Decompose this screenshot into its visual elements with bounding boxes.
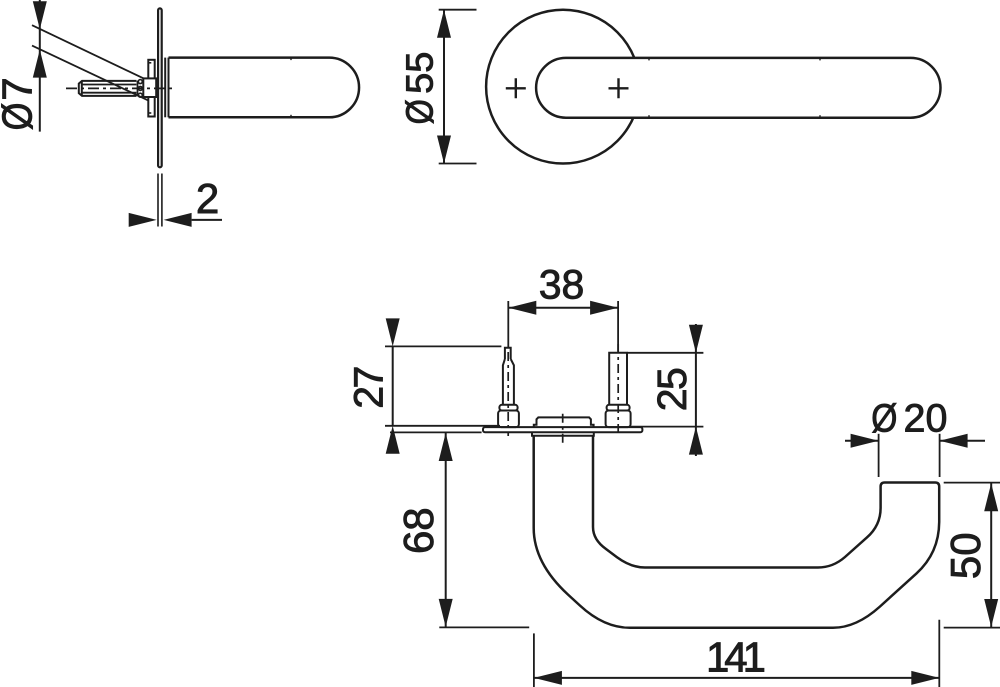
dimension 38 arrow left [508, 301, 536, 315]
dimension 25 arrow top [689, 325, 703, 353]
svg-text:Ø: Ø [0, 103, 41, 131]
grip junction ticks [290, 58, 292, 61]
lever junction ticks [648, 58, 650, 61]
svg-text:55: 55 [400, 52, 442, 94]
svg-text:50: 50 [942, 532, 989, 579]
dimension Ø20 line left [845, 440, 879, 442]
dimension 25 line [695, 324, 697, 456]
dimension 2 extension lines [157, 174, 159, 227]
svg-text:27: 27 [346, 368, 392, 409]
spindle (square, side view) [79, 81, 137, 96]
dimension Ø55 arrow bottom [437, 136, 451, 164]
grip (side view, stadium) [169, 58, 360, 118]
screw left nut [498, 411, 519, 428]
neck centerline [562, 414, 564, 444]
screw left ring [499, 405, 517, 411]
dimension 38 arrow right [590, 301, 618, 315]
dimension 68 line [445, 432, 447, 627]
dimension 50 arrow bottom [984, 599, 998, 627]
neck bell cap (side view) [164, 58, 166, 118]
dimension Ø20 arrow right [940, 434, 968, 448]
dimension Ø20 extension right [939, 434, 941, 477]
dimension 50 extension top [944, 482, 1000, 484]
dimension 25 extension top [628, 352, 704, 354]
stud right body [609, 353, 627, 405]
dimension Ø20 extension left [878, 434, 880, 477]
screw left (pointed tip) [503, 348, 514, 405]
dimension 141 extension left [533, 633, 535, 687]
dimension Ø7 arrow top [33, 1, 47, 29]
dimension 25 extension bottom [631, 426, 704, 428]
dimension 25 arrow bottom [689, 427, 703, 455]
dimension Ø20 arrow left [851, 434, 879, 448]
dimension 68 extension bottom [439, 626, 529, 628]
dimension 68 arrow bottom [439, 599, 453, 627]
stud right ring [607, 405, 630, 411]
dimension Ø7 extension line lower [32, 46, 148, 101]
dimension 38 extension right [617, 301, 619, 352]
svg-text:7: 7 [0, 77, 41, 100]
dimension Ø55 line [443, 10, 445, 164]
dimension Ø20 line right [940, 440, 985, 442]
dimension 27 arrow top [386, 318, 400, 346]
center mark right [609, 78, 629, 98]
svg-text:Ø: Ø [871, 397, 897, 441]
rosette plate (2mm, edge view) [158, 8, 162, 167]
dimension 68 arrow top [439, 433, 453, 461]
flange step top [148, 62, 151, 64]
dimension 27 line [392, 346, 394, 425]
svg-text:68: 68 [395, 507, 442, 554]
dimension 38 extension left [507, 301, 509, 347]
dimension Ø55 extension bottom [439, 163, 477, 165]
dimension 50 extension bottom [944, 627, 1000, 629]
spindle nut block [143, 78, 156, 97]
svg-text:141: 141 [706, 634, 765, 681]
grip U-tube [534, 436, 940, 628]
spindle spring detail [137, 81, 139, 97]
backplate (edge view) [483, 427, 642, 432]
rosette flange (support bush) [148, 60, 154, 117]
rosette circle Ø55 [486, 10, 640, 164]
dimension 2 arrow right [164, 213, 192, 227]
stud right nut [606, 411, 631, 428]
spindle centerline [66, 87, 172, 89]
dimension Ø55 extension top [439, 9, 477, 11]
svg-text:25: 25 [649, 368, 695, 411]
dimension 141 arrow right [911, 671, 939, 685]
dimension 2 tail [192, 219, 222, 221]
svg-text:Ø: Ø [400, 99, 442, 124]
dimension 27 extension top [385, 345, 501, 347]
svg-text:20: 20 [904, 397, 948, 441]
dimension 2 arrow left [129, 213, 157, 227]
neck bell shoulder [532, 432, 594, 435]
dimension 27 extension bottom [385, 425, 500, 427]
dimension 50 arrow top [984, 483, 998, 511]
lever (front view, white filled) [536, 58, 940, 118]
center mark left [506, 78, 526, 98]
dimension Ø7 arrow bottom [33, 50, 47, 78]
screw left centerline [507, 352, 509, 436]
dimension Ø7 line [39, 0, 41, 132]
dimension 68 extension top [390, 431, 482, 433]
dimension 50 line [990, 483, 992, 628]
dimension 38 line [508, 307, 618, 309]
dimension Ø55 arrow top [437, 10, 451, 38]
stud right centerline [617, 344, 619, 436]
dimension 27 arrow bottom [386, 426, 400, 454]
dimension 141 line [534, 677, 939, 679]
dimension 141 extension right [938, 620, 940, 687]
flange step bottom [148, 112, 151, 114]
svg-text:2: 2 [196, 175, 219, 222]
bearing boss [534, 417, 594, 427]
dimension 141 arrow left [534, 671, 562, 685]
dimension Ø7 extension line upper [32, 25, 143, 78]
svg-text:38: 38 [539, 261, 585, 307]
